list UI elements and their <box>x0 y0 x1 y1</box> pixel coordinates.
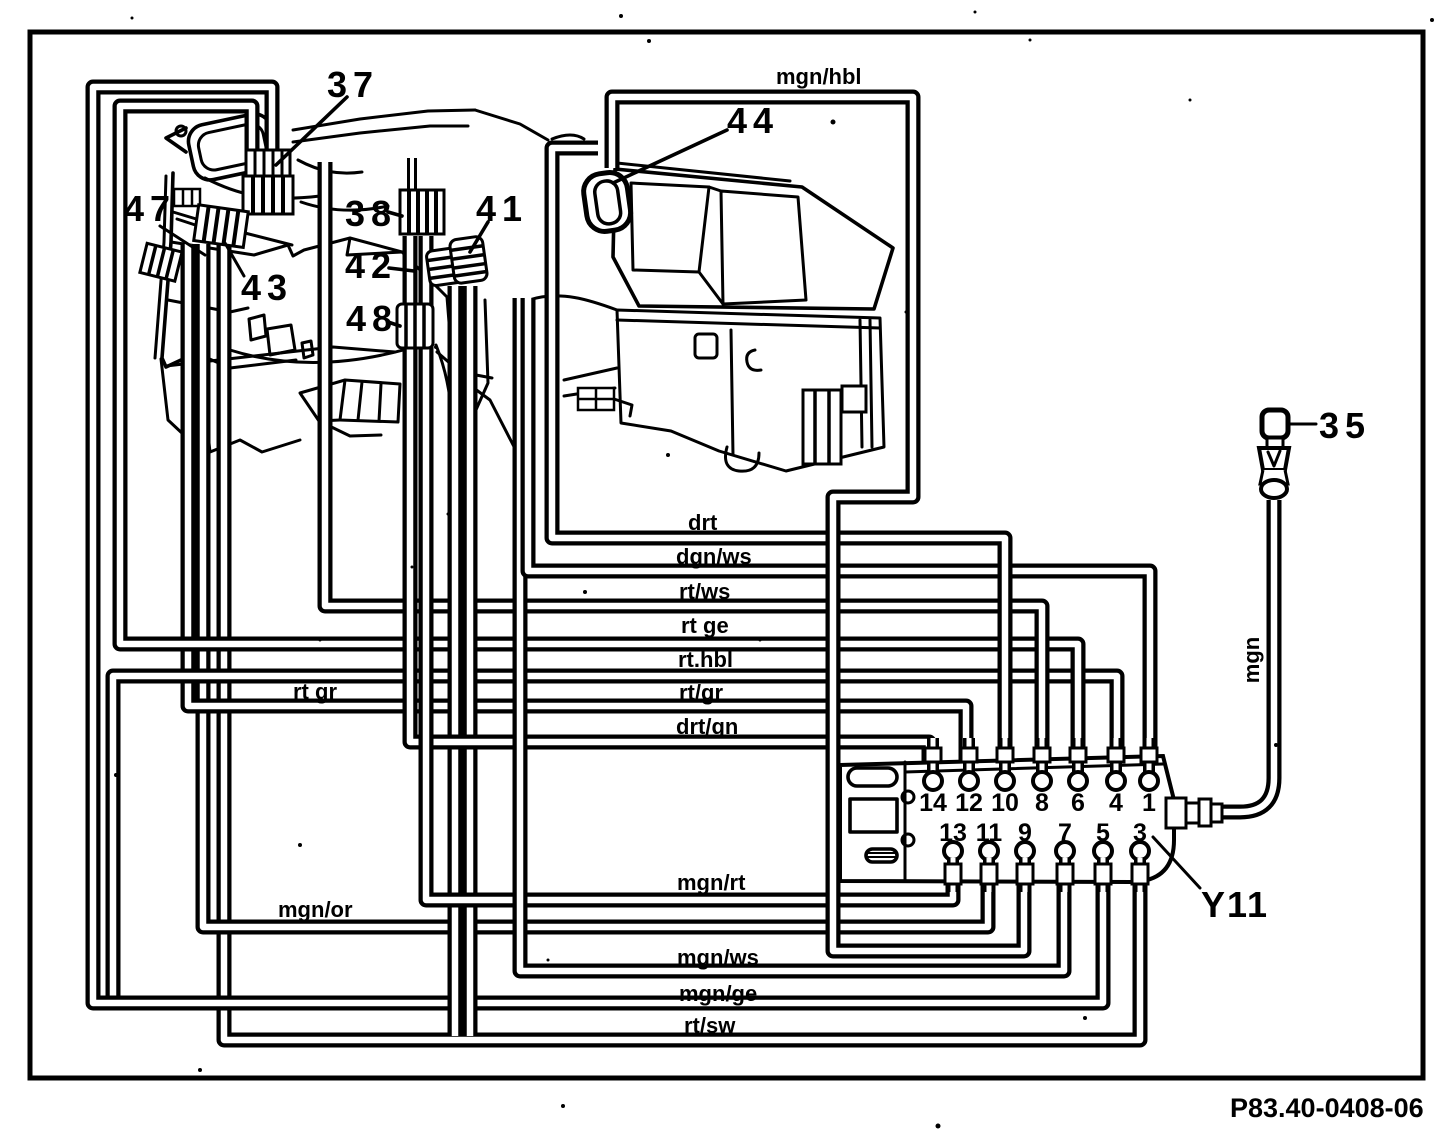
svg-text:mgn/ws: mgn/ws <box>677 945 759 970</box>
leader line 37 <box>276 97 347 165</box>
svg-text:5: 5 <box>1096 819 1110 847</box>
svg-text:P83.40-0408-06: P83.40-0408-06 <box>1230 1093 1424 1123</box>
connector 48 <box>397 304 433 348</box>
svg-text:Y11: Y11 <box>1201 884 1269 925</box>
hose mgn/rt <box>426 236 953 900</box>
Y11 bottom port 3 <box>1131 842 1149 892</box>
Y11 top port 10 <box>996 738 1014 790</box>
connector 43 <box>194 205 249 248</box>
hose rt/sw <box>224 244 1140 1040</box>
svg-text:rt.hbl: rt.hbl <box>678 647 733 672</box>
svg-text:4: 4 <box>1109 789 1123 817</box>
hose rt/ws <box>325 162 1042 778</box>
svg-text:42: 42 <box>345 245 397 286</box>
leader line 38 <box>388 212 402 216</box>
hose riser 41a <box>448 286 463 1036</box>
svg-text:dgn/ws: dgn/ws <box>676 544 752 569</box>
svg-text:rt/sw: rt/sw <box>684 1013 736 1038</box>
hose rt gr <box>188 244 966 778</box>
left edge clamp <box>140 243 182 281</box>
svg-text:6: 6 <box>1071 789 1085 817</box>
svg-text:35: 35 <box>1319 405 1371 446</box>
valve block Y11 outlet nipple <box>1166 798 1222 828</box>
connector 38 <box>400 190 444 234</box>
evaporator unit right: lid <box>613 169 893 309</box>
Y11 top port 1 <box>1140 738 1158 790</box>
svg-text:14: 14 <box>919 789 947 817</box>
hose rt.hbl <box>113 676 1117 1001</box>
leader line Y11 <box>1153 837 1200 888</box>
leader line 35 <box>1288 423 1316 426</box>
hose mgn <box>1222 500 1274 812</box>
Y11 bottom port 7 <box>1056 842 1074 892</box>
svg-text:37: 37 <box>327 64 379 105</box>
check valve 35 <box>1259 410 1289 498</box>
svg-text:mgn: mgn <box>1239 637 1264 683</box>
small grid box below right unit <box>578 388 614 410</box>
hose mgn/ge <box>93 87 1103 1003</box>
svg-text:38: 38 <box>345 193 397 234</box>
port cluster 37 <box>243 150 293 214</box>
svg-text:7: 7 <box>1058 819 1072 847</box>
svg-text:44: 44 <box>727 100 779 141</box>
heater unit left: housing outline <box>162 173 196 367</box>
svg-text:rt ge: rt ge <box>681 613 729 638</box>
Y11 bottom port 5 <box>1094 842 1112 892</box>
leader line 47 <box>160 226 205 255</box>
svg-text:drt/gn: drt/gn <box>676 714 738 739</box>
evaporator unit right: left foot curves <box>564 368 617 396</box>
Y11 bottom port 13 <box>944 842 962 892</box>
hose drt/gn <box>410 236 929 778</box>
connector 38 stem <box>407 158 417 192</box>
svg-text:48: 48 <box>346 298 398 339</box>
Y11 top port 12 <box>960 738 978 790</box>
heater unit left: mid contours <box>230 342 430 362</box>
svg-text:mgn/ge: mgn/ge <box>679 981 757 1006</box>
hose mgn/or <box>203 244 988 927</box>
hose rt ge <box>120 106 1078 778</box>
leader line 42 <box>389 268 414 271</box>
svg-text:13: 13 <box>939 819 967 847</box>
hose dgn/ws <box>528 298 1150 778</box>
Y11 top port 14 <box>924 738 942 790</box>
heater unit left: lower drawer <box>340 380 400 422</box>
Y11 bottom port 9 <box>1016 842 1034 892</box>
hose drt <box>552 148 1005 778</box>
svg-text:3: 3 <box>1133 819 1147 847</box>
svg-text:47: 47 <box>124 188 176 229</box>
svg-text:mgn/hbl: mgn/hbl <box>776 64 862 89</box>
svg-text:drt: drt <box>688 510 718 535</box>
connector 42 <box>426 247 468 287</box>
svg-text:41: 41 <box>476 188 528 229</box>
svg-text:8: 8 <box>1035 789 1049 817</box>
svg-text:mgn/or: mgn/or <box>278 897 353 922</box>
valve block Y11 body <box>840 756 1174 882</box>
svg-text:rt/gr: rt/gr <box>679 680 723 705</box>
Y11 top port 6 <box>1069 738 1087 790</box>
scan speckle dots <box>647 39 651 43</box>
Y11 top port 8 <box>1033 738 1051 790</box>
connector 41 <box>449 236 488 284</box>
leader line 43 <box>225 243 244 276</box>
evaporator unit right: body <box>617 310 884 471</box>
evaporator unit right: lower striped connector <box>803 386 866 464</box>
svg-text:mgn/rt: mgn/rt <box>677 870 746 895</box>
Y11 top port 4 <box>1107 738 1125 790</box>
svg-text:43: 43 <box>241 267 293 308</box>
grid symbol next to 47 <box>174 189 200 206</box>
svg-text:9: 9 <box>1018 819 1032 847</box>
leader line 48 <box>388 322 400 326</box>
svg-text:10: 10 <box>991 789 1019 817</box>
heater unit left: small boxes <box>249 315 266 340</box>
hose mgn/ws <box>520 298 1064 971</box>
hose mgn/hbl <box>612 97 1024 951</box>
svg-text:12: 12 <box>955 789 983 817</box>
hose riser 41b <box>463 286 478 1036</box>
valve block Y11 flange details <box>848 768 897 786</box>
svg-text:11: 11 <box>976 819 1003 847</box>
leader line 41 <box>470 222 488 252</box>
heater unit left: roof lines to right unit <box>293 110 475 130</box>
Y11 bottom port 11 <box>980 842 998 892</box>
leader line 44 <box>613 130 727 183</box>
heater unit left: extra contours <box>168 300 248 312</box>
svg-text:rt gr: rt gr <box>293 679 337 704</box>
evaporator unit right: fitting 44 <box>581 170 633 234</box>
heater unit left: actuator pillow <box>185 111 279 183</box>
svg-text:rt/ws: rt/ws <box>679 579 730 604</box>
svg-text:1: 1 <box>1142 789 1156 817</box>
